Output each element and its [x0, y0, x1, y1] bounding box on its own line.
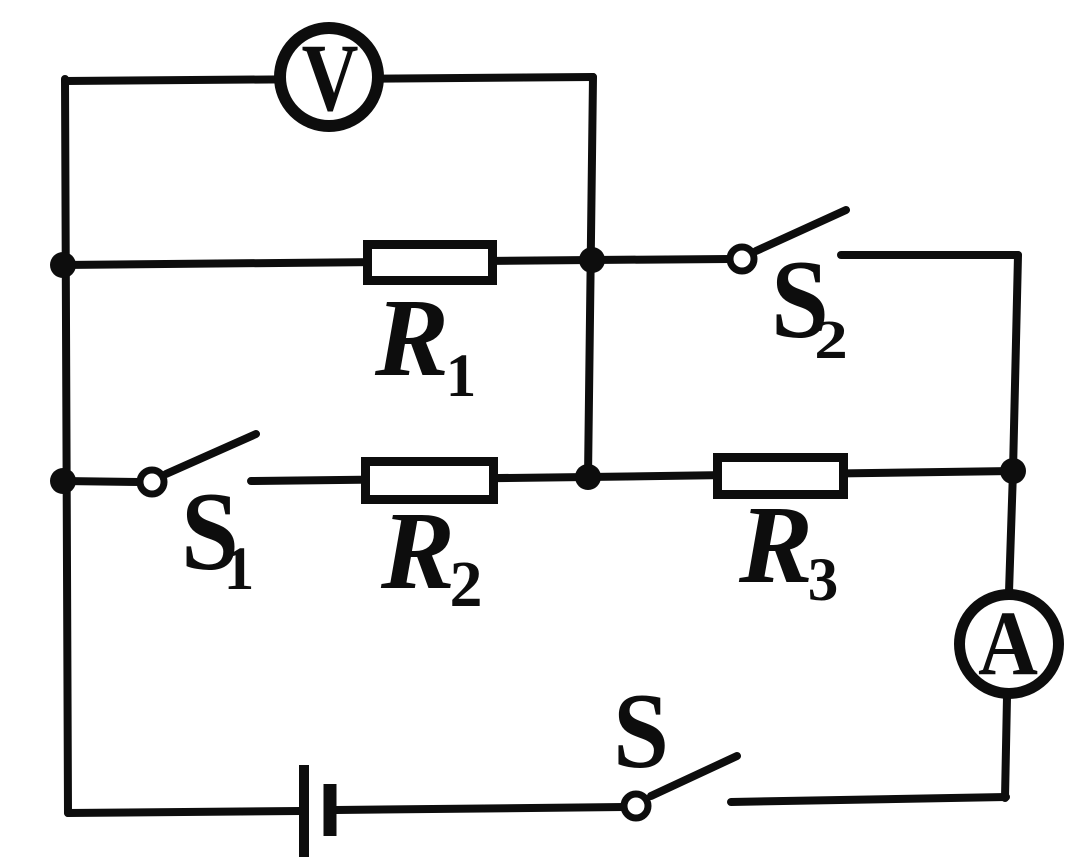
- svg-text:A: A: [978, 592, 1038, 694]
- svg-text:2: 2: [450, 548, 483, 621]
- wire S to bottom-right corner: [731, 797, 1006, 802]
- wire bottom left: [68, 811, 300, 813]
- svg-text:V: V: [302, 25, 359, 131]
- svg-text:R: R: [738, 484, 813, 607]
- switch S pivot: [624, 794, 648, 818]
- wire center vertical: [588, 77, 593, 477]
- resistor R3: [718, 458, 844, 495]
- wire left node to S1 pivot: [63, 481, 140, 482]
- resistor R2: [366, 462, 494, 500]
- svg-text:R: R: [380, 490, 455, 613]
- voltmeter V circle: [280, 28, 378, 126]
- wire battery to S pivot: [336, 807, 624, 810]
- resistor R1: [368, 245, 493, 281]
- battery short plate: [324, 784, 337, 836]
- switch S2 pivot: [730, 247, 754, 271]
- wire node to S2 pivot: [592, 259, 730, 260]
- svg-text:1: 1: [446, 343, 477, 410]
- wire R1 row: [63, 260, 592, 265]
- wire S2 to top-right corner: [841, 251, 1018, 259]
- wire left vertical: [65, 79, 68, 813]
- wire right vertical upper: [1013, 255, 1018, 471]
- battery long plate: [299, 765, 309, 857]
- svg-text:2: 2: [814, 310, 848, 371]
- svg-text:3: 3: [808, 547, 839, 614]
- node B2 center R2 row: [575, 464, 601, 490]
- ammeter A circle: [960, 595, 1059, 694]
- wire right vertical to ammeter: [1009, 471, 1013, 592]
- node B1 left R2 row: [50, 468, 76, 494]
- svg-text:1: 1: [224, 536, 255, 603]
- switch S blade: [651, 756, 737, 796]
- switch S1 pivot: [140, 470, 164, 494]
- node B3 right R3 row: [1000, 458, 1026, 484]
- node A1 left R1 row: [50, 252, 76, 278]
- node A2 center R1 row: [579, 247, 605, 273]
- wire ammeter to bottom-right corner: [1005, 697, 1007, 798]
- wire R3 row: [588, 471, 1013, 477]
- wire top row: [65, 77, 593, 81]
- svg-text:S: S: [613, 671, 669, 791]
- switch S2 blade: [756, 210, 846, 251]
- wire S1 to R2: [251, 477, 588, 481]
- svg-text:R: R: [374, 277, 449, 400]
- switch S1 blade: [166, 434, 256, 474]
